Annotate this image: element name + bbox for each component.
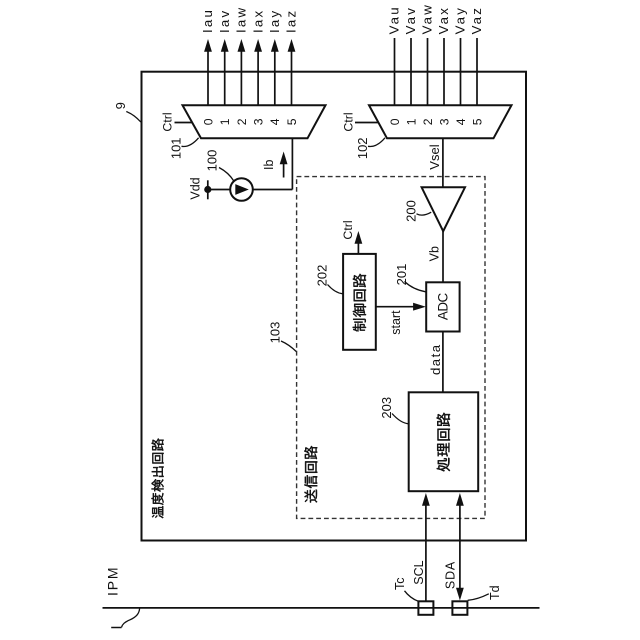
svg-text:Vau: Vau <box>387 5 402 34</box>
svg-text:ADC: ADC <box>436 292 451 320</box>
current source 100 circle <box>230 178 253 201</box>
svg-text:203: 203 <box>379 397 394 419</box>
svg-text:0: 0 <box>201 118 215 125</box>
label Iaz <box>284 9 299 33</box>
svg-text:Tc: Tc <box>393 577 407 590</box>
svg-text:4: 4 <box>268 118 282 125</box>
label 203 <box>379 397 394 419</box>
label Ctrl (mux 102) <box>341 112 355 131</box>
mux 101 pin number 4 <box>268 118 282 125</box>
mux 102 pin number 1 <box>404 118 418 125</box>
label Vaw <box>420 3 435 34</box>
svg-text:2: 2 <box>421 118 435 125</box>
label 制御回路 (control circuit) <box>353 274 366 332</box>
label 103 <box>268 322 283 344</box>
label ADC <box>436 292 451 320</box>
svg-text:103: 103 <box>268 322 283 344</box>
label 202 <box>315 265 330 287</box>
svg-text:Ctrl: Ctrl <box>160 112 174 131</box>
wire output Iay with arrow <box>271 39 279 105</box>
label 温度検出回路 (temperature detection circuit) <box>152 438 164 518</box>
label 200 <box>403 200 418 222</box>
wire data ADC to processing circuit <box>442 332 444 393</box>
mux 101 pin number 2 <box>235 118 249 125</box>
leader for Tc <box>405 591 419 601</box>
current source arrow symbol <box>235 184 249 195</box>
wire input Vax <box>443 38 445 105</box>
svg-text:200: 200 <box>403 200 418 222</box>
multiplexer 102 (voltage mux) <box>369 105 512 138</box>
svg-text:Ctrl: Ctrl <box>341 112 355 131</box>
wire input Vaz <box>476 38 478 105</box>
svg-text:SCL: SCL <box>412 560 426 584</box>
mux 102 pin number 3 <box>437 118 451 125</box>
mux 102 pin number 5 <box>470 118 484 125</box>
start signal arrow to ADC <box>376 303 426 311</box>
leader for 203 <box>392 414 408 424</box>
label SCL <box>412 560 426 584</box>
svg-text:IPM: IPM <box>104 566 120 596</box>
svg-text:4: 4 <box>454 118 468 125</box>
wire input Vau <box>394 38 396 105</box>
label Iay <box>267 9 282 33</box>
svg-text:Iay: Iay <box>267 9 282 33</box>
svg-text:Iav: Iav <box>217 9 232 33</box>
control circuit 202 box <box>343 254 376 350</box>
label Iau <box>200 8 215 33</box>
svg-text:2: 2 <box>235 118 249 125</box>
svg-text:Vb: Vb <box>428 246 442 261</box>
leader for 103 <box>281 341 296 352</box>
label Vsel <box>427 144 442 169</box>
label Vaz <box>469 6 484 35</box>
wire Vsel from mux 102 to amplifier <box>442 138 444 187</box>
label 201 <box>394 264 409 286</box>
label 処理回路 (processing circuit) <box>437 413 451 472</box>
leader for Td <box>468 594 489 601</box>
label Iav <box>217 9 232 33</box>
label Td <box>488 585 502 600</box>
svg-text:100: 100 <box>204 150 219 172</box>
wire input Vay <box>460 38 462 105</box>
wire input Vav <box>410 38 412 105</box>
leader for 201 <box>405 282 426 292</box>
wire output Iaz with arrow <box>288 39 296 105</box>
svg-text:5: 5 <box>470 118 484 125</box>
mux 101 pin number 1 <box>218 118 232 125</box>
label Tc <box>393 577 407 590</box>
label Vb <box>428 246 442 261</box>
wire current source to mux <box>253 189 293 191</box>
dashed box 103: transmission circuit <box>297 177 485 519</box>
Ib current direction arrow <box>280 152 288 178</box>
svg-text:0: 0 <box>388 118 402 125</box>
ADC 201 box <box>426 282 459 331</box>
mux 102 Ctrl input wire <box>355 122 379 124</box>
svg-text:Ib: Ib <box>262 160 276 170</box>
leader for 202 <box>328 285 343 294</box>
svg-text:data: data <box>428 343 443 375</box>
label 9 <box>113 102 128 109</box>
wire SDA double arrow <box>456 493 464 601</box>
svg-text:Td: Td <box>488 585 502 600</box>
svg-text:Vav: Vav <box>403 6 418 35</box>
label Vdd <box>188 177 202 199</box>
wire SCL with up arrow <box>422 493 430 601</box>
svg-text:101: 101 <box>169 137 184 159</box>
wire up to mux 101 bottom <box>291 138 293 189</box>
terminal Tc square <box>418 601 433 615</box>
wire Vdd to current source <box>208 189 230 191</box>
mux 102 pin number 4 <box>454 118 468 125</box>
svg-text:3: 3 <box>252 118 266 125</box>
wire output Iau with arrow <box>204 39 212 105</box>
svg-text:102: 102 <box>355 137 370 159</box>
label Ctrl (mux 101) <box>160 112 174 131</box>
label SDA <box>444 561 458 589</box>
label start <box>389 310 403 335</box>
svg-text:Vdd: Vdd <box>188 177 202 199</box>
wire input Vaw <box>427 38 429 105</box>
svg-text:1: 1 <box>218 118 232 125</box>
leader for 100 <box>219 168 234 182</box>
wire output Iax with arrow <box>254 39 262 105</box>
processing circuit 203 box <box>409 392 479 491</box>
label 送信回路 (transmission circuit) <box>304 446 317 503</box>
label Iax <box>250 9 265 33</box>
svg-text:1: 1 <box>404 118 418 125</box>
leader for 102 <box>368 138 385 147</box>
terminal Td square <box>452 601 467 615</box>
mux 101 pin number 0 <box>201 118 215 125</box>
svg-text:Iau: Iau <box>200 8 215 33</box>
label Ctrl (control output) <box>341 220 355 239</box>
IPM boundary line <box>103 607 540 609</box>
svg-text:Vay: Vay <box>453 6 468 35</box>
label Vau <box>387 5 402 34</box>
svg-text:5: 5 <box>285 118 299 125</box>
label data <box>428 343 443 375</box>
svg-text:202: 202 <box>315 265 330 287</box>
Vdd terminal tick <box>207 180 209 199</box>
label Vay <box>453 6 468 35</box>
svg-text:SDA: SDA <box>444 561 458 589</box>
multiplexer 101 (current mux) <box>183 105 326 138</box>
leader for 9 <box>126 112 141 123</box>
svg-text:Iaz: Iaz <box>284 9 299 33</box>
leader for 200 <box>417 212 432 215</box>
mux 101 Ctrl input wire <box>175 122 193 124</box>
mux 102 pin number 2 <box>421 118 435 125</box>
svg-text:start: start <box>389 310 403 335</box>
label Vav <box>403 6 418 35</box>
label 102 <box>355 137 370 159</box>
svg-text:Vsel: Vsel <box>427 144 442 169</box>
svg-text:Vax: Vax <box>436 6 451 35</box>
Vdd node dot <box>204 186 211 193</box>
label Vax <box>436 6 451 35</box>
svg-text:Ctrl: Ctrl <box>341 220 355 239</box>
svg-text:9: 9 <box>113 102 128 109</box>
mux 101 pin number 3 <box>252 118 266 125</box>
svg-text:Vaw: Vaw <box>420 3 435 34</box>
leader for 101 <box>182 138 199 147</box>
label 101 <box>169 137 184 159</box>
svg-text:Vaz: Vaz <box>469 6 484 35</box>
outer box: temperature detection circuit 9 <box>142 72 527 541</box>
mux 102 pin number 0 <box>388 118 402 125</box>
svg-text:Iaw: Iaw <box>234 6 249 33</box>
label 100 <box>204 150 219 172</box>
svg-text:3: 3 <box>437 118 451 125</box>
svg-text:201: 201 <box>394 264 409 286</box>
amplifier 200 (buffer triangle) <box>422 187 465 231</box>
Ctrl output arrow from control circuit <box>355 231 363 254</box>
svg-text:Iax: Iax <box>250 9 265 33</box>
wire output Iav with arrow <box>221 39 229 105</box>
label Iaw <box>234 6 249 33</box>
wire output Iaw with arrow <box>238 39 246 105</box>
wire Vb amplifier to ADC <box>442 231 444 282</box>
leader squiggle on IPM line <box>111 609 139 628</box>
label Ib <box>262 160 276 170</box>
mux 101 pin number 5 <box>285 118 299 125</box>
label IPM <box>104 566 120 596</box>
